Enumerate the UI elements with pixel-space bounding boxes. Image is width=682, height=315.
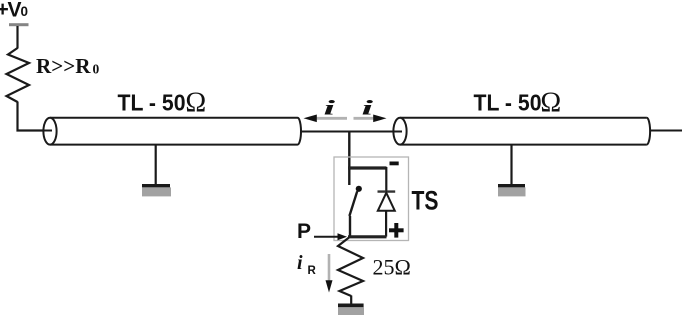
TS inner top bar: [348, 166, 387, 169]
source terminal bar: [9, 23, 29, 26]
ground (bottom): [338, 304, 364, 315]
svg-text:V: V: [8, 0, 22, 22]
wire resistor to TL1 input: [18, 102, 53, 131]
diode triangle: [378, 193, 395, 211]
resistor 25 ohm: [338, 238, 363, 297]
svg-text:TS: TS: [412, 185, 439, 215]
TL2 ground: [498, 184, 526, 196]
TS inner bottom bar: [348, 235, 387, 238]
diode anode wire: [385, 211, 387, 237]
svg-text:P: P: [297, 220, 311, 243]
label plus: [389, 223, 404, 238]
current arrow left (reflected i): [304, 115, 348, 123]
svg-text:TL - 50: TL - 50: [118, 90, 186, 116]
svg-text:R: R: [308, 265, 317, 277]
arrow P pointing to node: [314, 233, 347, 240]
resistor R (R>>R0): [7, 48, 30, 102]
wire junction down into TS box: [348, 132, 350, 186]
switch blade: [349, 191, 357, 216]
diode cathode bar: [378, 190, 396, 192]
svg-text:i: i: [324, 96, 336, 120]
wire junction between TL1 and TL2: [301, 131, 402, 133]
svg-text:TL - 50: TL - 50: [474, 90, 542, 116]
current arrow right (incident i): [354, 115, 387, 123]
switch pivot dot: [356, 186, 362, 192]
TL1 ground: [142, 184, 171, 196]
transmission line TL1 body: [42, 118, 301, 145]
wire 25ohm resistor to ground: [350, 296, 352, 305]
svg-text:0: 0: [21, 4, 29, 19]
TL2 ground stub wire: [510, 145, 512, 185]
switch bottom stub: [349, 216, 351, 237]
svg-text:Ω: Ω: [540, 87, 561, 118]
TL2 output wire: [651, 130, 682, 132]
svg-text:Ω: Ω: [185, 87, 206, 118]
TL1 ground stub wire: [155, 145, 157, 185]
diode branch wire top: [385, 167, 387, 191]
svg-text:R>>R: R>>R: [36, 54, 91, 78]
transmission line TL2 body: [393, 118, 650, 145]
label minus: [390, 162, 399, 166]
label iR: [297, 252, 317, 277]
svg-text:0: 0: [93, 62, 100, 77]
svg-text:i: i: [297, 252, 303, 274]
svg-text:25Ω: 25Ω: [373, 255, 411, 280]
arrow iR downward: [326, 254, 333, 293]
svg-text:i: i: [362, 96, 374, 120]
wire source to resistor R1: [16, 26, 18, 49]
TS box outline: [334, 157, 409, 241]
